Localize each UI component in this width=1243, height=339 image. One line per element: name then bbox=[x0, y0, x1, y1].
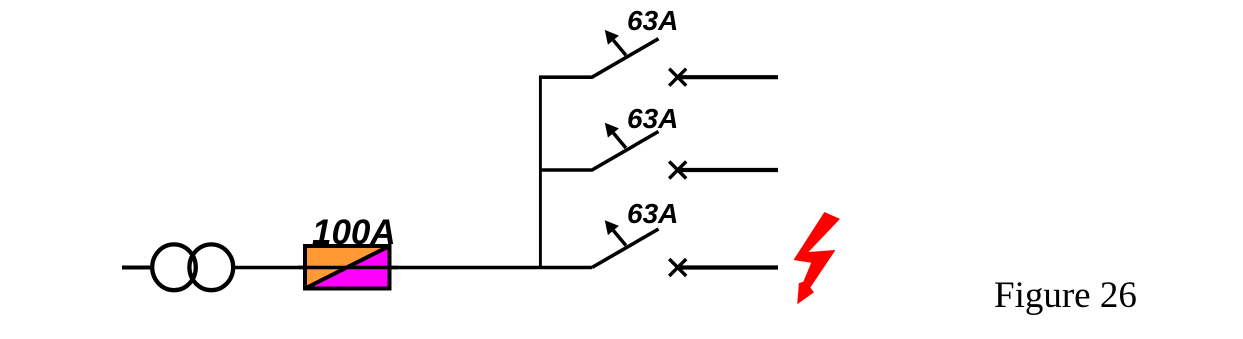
wire: outgoing circuit 2 bbox=[678, 168, 778, 172]
switch Q2 trip arrow bbox=[605, 123, 626, 148]
svg-text:63A: 63A bbox=[627, 5, 678, 36]
contact cross (Q1) bbox=[669, 69, 686, 86]
wire: outgoing circuit 1 bbox=[678, 75, 778, 79]
svg-text:100A: 100A bbox=[312, 213, 396, 252]
contact cross (Q2) bbox=[669, 162, 686, 179]
svg-text:Figure 26: Figure 26 bbox=[994, 275, 1137, 316]
busbar (vertical) bbox=[539, 76, 542, 268]
switch Q1 trip arrow bbox=[605, 30, 626, 55]
fault flash symbol bbox=[794, 212, 841, 304]
wire: incoming supply stub bbox=[122, 266, 152, 270]
svg-text:63A: 63A bbox=[627, 198, 678, 229]
wire: transformer to fuse bbox=[235, 266, 305, 270]
transformer T1 bbox=[152, 244, 233, 290]
contact cross (Q3) bbox=[669, 259, 686, 276]
branch 1 wire bbox=[539, 39, 659, 77]
svg-text:63A: 63A bbox=[627, 103, 678, 134]
wire: outgoing circuit 3 bbox=[678, 265, 778, 269]
branch 3 wire (switch Q3 blade) bbox=[592, 229, 659, 268]
wire: fuse to busbar bbox=[390, 266, 593, 270]
switch Q3 trip arrow bbox=[605, 220, 626, 245]
branch 2 wire bbox=[539, 132, 659, 171]
fuse F1 (100A) bbox=[298, 246, 398, 289]
